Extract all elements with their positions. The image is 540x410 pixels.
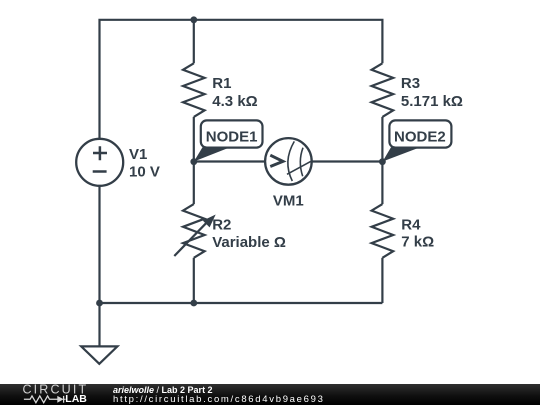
svg-text:V1: V1: [129, 146, 147, 163]
ground symbol: [81, 346, 117, 363]
R2 arrow shaft: [174, 221, 208, 256]
V1 plus sign: [93, 146, 107, 160]
footer brand bar: [0, 384, 540, 405]
junction dot node2: [379, 158, 386, 165]
NODE1 flag box: [201, 120, 263, 147]
wire top-left rail from V1 branch: [100, 20, 194, 139]
R2 arrow head: [203, 215, 216, 228]
ground stem wire: [98, 303, 100, 346]
resistor R1: [183, 63, 205, 117]
wire VM1 to node2: [312, 160, 383, 162]
NODE1 callout tail: [194, 147, 230, 161]
svg-text:5.171 kΩ: 5.171 kΩ: [401, 93, 463, 110]
svg-text:R3: R3: [401, 75, 420, 92]
wire R1 top lead: [193, 20, 195, 64]
resistor R3: [372, 63, 394, 117]
junction dot bottom mid: [190, 300, 197, 307]
NODE2 callout tail: [383, 147, 420, 161]
VM1 needle: [287, 161, 311, 174]
svg-text:4.3 kΩ: 4.3 kΩ: [212, 93, 257, 110]
voltage source V1 circle: [76, 139, 123, 186]
svg-text:NODE2: NODE2: [394, 128, 446, 145]
junction dot top rail: [190, 16, 197, 23]
logo mini circuit wire resistor diode: [24, 396, 66, 403]
wire R1 to node1: [193, 117, 195, 162]
wire R4 to bottom rail: [381, 258, 383, 303]
svg-text:LAB: LAB: [65, 393, 87, 405]
bottom rail wire: [100, 302, 383, 304]
wire V1 bottom lead: [98, 186, 100, 303]
svg-text:VM1: VM1: [273, 193, 304, 210]
wire node2 to R4: [381, 162, 383, 205]
wire R2 to bottom rail: [193, 258, 195, 303]
wire top rail to R3 branch: [194, 20, 383, 64]
wire node1 to R2: [193, 162, 195, 205]
junction dot bottom left: [96, 300, 103, 307]
svg-text:R2: R2: [212, 217, 231, 234]
V1 minus sign: [93, 170, 107, 173]
svg-text:R1: R1: [212, 75, 231, 92]
svg-text:R4: R4: [401, 217, 421, 234]
NODE2 flag box: [389, 120, 451, 147]
resistor R2 variable: [183, 204, 205, 258]
VM1 scale arc right: [300, 148, 303, 177]
svg-text:http://circuitlab.com/c86d4vb9: http://circuitlab.com/c86d4vb9ae693: [113, 394, 325, 405]
resistor R4: [372, 204, 394, 258]
wire R3 to node2: [381, 117, 383, 162]
VM1 scale arc left: [288, 141, 294, 181]
voltmeter VM1 circle: [265, 138, 312, 185]
svg-text:7 kΩ: 7 kΩ: [401, 234, 434, 251]
svg-text:Variable Ω: Variable Ω: [212, 234, 286, 251]
wire node1 to VM1: [194, 160, 265, 162]
VM1 greater-than mark: [270, 155, 283, 166]
junction dot node1: [190, 158, 197, 165]
svg-text:NODE1: NODE1: [206, 128, 258, 145]
svg-text:10 V: 10 V: [129, 164, 160, 181]
